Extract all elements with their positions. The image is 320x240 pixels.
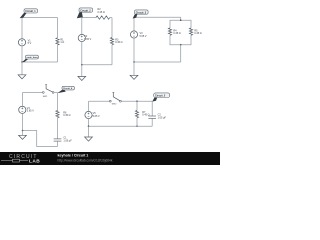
svg-text:5 V: 5 V (28, 42, 32, 45)
svg-text:5.65 V: 5.65 V (27, 110, 34, 113)
wire bottom C4 (23, 131, 58, 147)
wire bottom C2 (82, 64, 112, 66)
wire left lower C2 (81, 42, 83, 65)
svg-text:1.05 µF: 1.05 µF (63, 139, 72, 142)
voltage source V4 (19, 106, 26, 113)
junction C3 bottom-left (133, 61, 135, 63)
wire C2 stub top (151, 101, 153, 116)
wire top-left C4 (23, 92, 43, 94)
svg-text:Circuit_5: Circuit_5 (155, 94, 166, 97)
switch SW2 (109, 92, 121, 102)
svg-text:5.65 V: 5.65 V (84, 38, 91, 41)
switch SW1 (42, 84, 54, 93)
capacitor C2 (148, 116, 156, 118)
wire bottom C1 (22, 61, 58, 63)
wire R7 stub top (136, 101, 138, 110)
junction bracket bottom (180, 44, 182, 46)
wire top C3 (135, 16, 181, 18)
node flag Circuit_2 (77, 8, 93, 18)
voltage source V3 (130, 31, 137, 38)
wire feed stem C3 (180, 17, 182, 20)
wire bottom bracket C3 (170, 35, 191, 44)
wire C2 to bottom (151, 118, 153, 126)
resistor R4 (168, 28, 171, 35)
ground C4 (19, 131, 27, 140)
wire left lower C3 (133, 38, 135, 62)
svg-text:http://www.circuitlab.com/c/12: http://www.circuitlab.com/c/12rtz6jd64k (58, 158, 113, 162)
node flag Circuit_3 (133, 10, 149, 19)
node flag Circuit_4 (57, 86, 74, 93)
resistor R7 (135, 111, 138, 118)
svg-text:0.45 Ω: 0.45 Ω (194, 32, 201, 35)
svg-text:5.65 V: 5.65 V (140, 35, 147, 38)
wire right lower C1 (57, 45, 59, 62)
wire right upper C1 (57, 18, 59, 38)
svg-text:node_base: node_base (27, 57, 39, 59)
junction C5 ground tee (88, 125, 90, 127)
svg-text:1.05 µF: 1.05 µF (158, 116, 167, 119)
svg-text:Circuit_4: Circuit_4 (63, 87, 73, 90)
wire left lower C1 (21, 46, 23, 62)
wire top bracket C3 (170, 20, 191, 28)
svg-text:0.45 Ω: 0.45 Ω (63, 114, 70, 117)
wire top-right C2 (110, 17, 112, 19)
wire top-left C5 (89, 100, 110, 102)
wire R6 to C1 (57, 118, 59, 139)
svg-text:5.65 V: 5.65 V (93, 115, 100, 118)
svg-text:0.45 Ω: 0.45 Ω (115, 41, 122, 44)
node flag Circuit_5 (152, 93, 170, 102)
wire bottom C3 (134, 61, 181, 63)
wire bracket to bottom C3 (180, 45, 182, 62)
resistor R2 (96, 16, 110, 19)
wire top C1 (22, 17, 58, 19)
wire right lower C2 (111, 45, 113, 65)
svg-text:LAB: LAB (29, 158, 40, 164)
junction C4 ground tee (22, 130, 24, 132)
junction bracket top (180, 19, 182, 21)
voltage source V5 (85, 111, 92, 118)
resistor R1 (56, 38, 59, 45)
resistor R3 (110, 38, 113, 45)
voltage source V1 (18, 39, 25, 46)
capacitor C1 (54, 139, 62, 141)
svg-text:SW1: SW1 (43, 96, 49, 98)
wire left upper C2 (81, 18, 83, 35)
ground C3 (130, 62, 138, 79)
wire left upper C1 (21, 18, 23, 39)
node flag node_base (bottom) (22, 55, 39, 62)
wire C1 to bottom (57, 141, 59, 146)
wire left upper C3 (133, 17, 136, 31)
wire top-left C2 (82, 17, 96, 19)
junction C1 bottom-left (21, 61, 23, 63)
junction R7 bottom (136, 125, 138, 127)
node flag Circuit_1 (20, 9, 38, 18)
svg-text:keyhole / Circuit 1: keyhole / Circuit 1 (58, 154, 89, 158)
wire right upper C2 (111, 18, 113, 38)
svg-text:0.45 Ω: 0.45 Ω (173, 32, 180, 35)
resistor R6 (56, 111, 59, 118)
logo wire (1, 160, 28, 162)
wire R7 to bottom (136, 118, 138, 126)
ground C2 (78, 65, 86, 81)
svg-text:1 Ω: 1 Ω (60, 41, 64, 44)
svg-text:Circuit_3: Circuit_3 (136, 11, 147, 14)
logo fuse box (13, 159, 20, 162)
ground C5 (85, 126, 93, 141)
junction R7 top (136, 100, 138, 102)
junction C2 bottom-left (81, 64, 83, 66)
ground C1 (18, 62, 26, 79)
wire switch to corner C4 (54, 92, 58, 94)
voltage source V2 (78, 34, 85, 41)
svg-text:Circuit_1: Circuit_1 (25, 10, 36, 13)
wire left upper C4 (22, 93, 24, 107)
svg-text:Circuit_2: Circuit_2 (80, 9, 91, 12)
wire bottom C5 (89, 125, 153, 127)
svg-text:SW2: SW2 (112, 104, 118, 106)
wire switch to corner C5 (121, 100, 152, 102)
wire left upper C5 (88, 101, 90, 111)
svg-text:0.45 Ω: 0.45 Ω (98, 11, 105, 14)
resistor R5 (189, 28, 192, 35)
wire left lower C5 (88, 119, 90, 127)
wire right upper C4 (57, 93, 59, 111)
wire left lower C4 (22, 113, 24, 130)
